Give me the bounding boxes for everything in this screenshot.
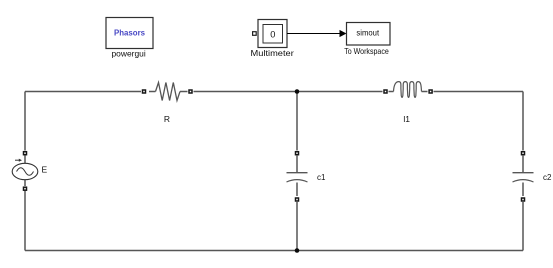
svg-text:Multimeter: Multimeter xyxy=(251,48,294,58)
svg-text:Phasors: Phasors xyxy=(114,29,146,38)
svg-text:c2: c2 xyxy=(543,173,552,182)
svg-text:powergui: powergui xyxy=(112,48,146,58)
svg-text:l1: l1 xyxy=(403,114,410,124)
svg-text:E: E xyxy=(42,165,48,175)
svg-text:c1: c1 xyxy=(317,173,326,182)
svg-text:To Workspace: To Workspace xyxy=(344,46,389,56)
svg-text:R: R xyxy=(164,114,170,124)
svg-text:0: 0 xyxy=(270,29,275,39)
svg-text:simout: simout xyxy=(356,28,379,38)
